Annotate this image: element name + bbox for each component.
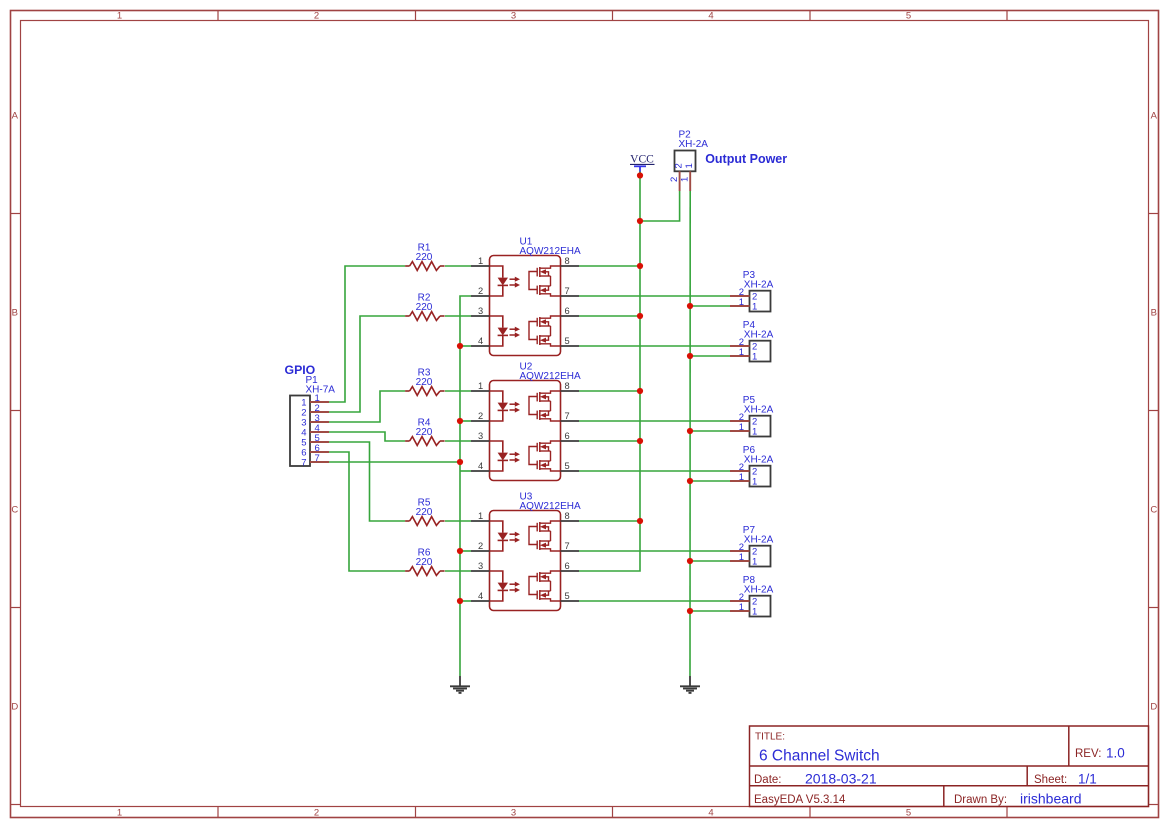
svg-text:1: 1 xyxy=(478,256,483,266)
wire R3 to U2.1 xyxy=(445,390,471,392)
svg-text:5: 5 xyxy=(906,10,911,21)
svg-text:4: 4 xyxy=(478,591,483,601)
connector P6 XH-2A xyxy=(730,462,771,488)
wire U3.7 to P7.2 xyxy=(579,550,730,552)
svg-text:C: C xyxy=(11,505,18,516)
svg-text:3: 3 xyxy=(511,10,516,21)
svg-text:1: 1 xyxy=(684,163,695,168)
svg-text:2: 2 xyxy=(314,807,319,818)
svg-text:1.0: 1.0 xyxy=(1106,746,1125,761)
wire VCC bus down to U3.6 xyxy=(579,172,640,572)
svg-text:XH-2A: XH-2A xyxy=(744,584,774,595)
wire R1 to U1.1 xyxy=(445,265,471,267)
svg-text:3: 3 xyxy=(511,807,516,818)
VCC power flag xyxy=(630,154,655,173)
svg-text:Date:: Date: xyxy=(754,774,782,786)
svg-text:4: 4 xyxy=(708,10,713,21)
wire P1.1 to R1 xyxy=(329,266,405,402)
wire R5 to U3.1 xyxy=(445,520,471,522)
svg-text:XH-2A: XH-2A xyxy=(744,534,774,545)
svg-text:2: 2 xyxy=(478,411,483,421)
svg-text:220: 220 xyxy=(416,302,433,313)
svg-text:1: 1 xyxy=(680,177,691,182)
svg-text:EasyEDA V5.3.14: EasyEDA V5.3.14 xyxy=(754,794,846,806)
svg-text:XH-7A: XH-7A xyxy=(306,385,336,396)
svg-text:1: 1 xyxy=(739,297,744,308)
svg-text:1/1: 1/1 xyxy=(1078,772,1097,787)
svg-text:220: 220 xyxy=(416,427,433,438)
svg-text:220: 220 xyxy=(416,252,433,263)
svg-text:D: D xyxy=(11,702,18,713)
svg-text:B: B xyxy=(12,308,18,319)
wire R4 to U2.3 xyxy=(445,440,471,442)
wire U2.7 to P5.2 xyxy=(579,420,730,422)
resistor R4 220 xyxy=(405,437,445,446)
wire bus to P4.1 xyxy=(690,355,730,357)
wire U1.6 to VCC bus xyxy=(579,315,640,317)
svg-text:1: 1 xyxy=(478,511,483,521)
svg-text:5: 5 xyxy=(565,461,570,471)
svg-text:7: 7 xyxy=(315,453,320,464)
title block xyxy=(750,726,1149,807)
svg-text:7: 7 xyxy=(565,541,570,551)
wire U3.5 to P8.2 xyxy=(579,600,730,602)
connector P8 XH-2A xyxy=(730,592,771,618)
wire P1.5 to R5 xyxy=(329,442,405,521)
svg-text:A: A xyxy=(12,111,19,122)
svg-text:2: 2 xyxy=(314,10,319,21)
svg-text:2018-03-21: 2018-03-21 xyxy=(805,771,877,787)
wire U1.7 to P3.2 xyxy=(579,295,730,297)
svg-text:REV:: REV: xyxy=(1075,748,1101,760)
wire P1.6 to R6 xyxy=(329,452,405,571)
svg-text:3: 3 xyxy=(478,306,483,316)
svg-text:A: A xyxy=(1151,111,1158,122)
svg-text:Output Power: Output Power xyxy=(705,152,787,166)
svg-text:VCC: VCC xyxy=(630,154,654,166)
svg-text:5: 5 xyxy=(565,591,570,601)
wire U1.5 to P4.2 xyxy=(579,345,730,347)
wire P1.4 to R4 xyxy=(329,432,405,441)
wire bus to U3.4 xyxy=(460,600,471,602)
wire bus to U1.4 xyxy=(460,345,471,347)
wire bus to P3.1 xyxy=(690,305,730,307)
wire P1.2 to R2 xyxy=(329,316,405,412)
svg-text:3: 3 xyxy=(478,561,483,571)
svg-text:1: 1 xyxy=(117,10,122,21)
resistor R2 220 xyxy=(405,312,445,321)
svg-text:7: 7 xyxy=(565,286,570,296)
resistor R5 220 xyxy=(405,517,445,526)
wire U2.6 to VCC bus xyxy=(579,440,640,442)
svg-text:220: 220 xyxy=(416,377,433,388)
svg-text:1: 1 xyxy=(478,381,483,391)
svg-text:220: 220 xyxy=(416,507,433,518)
svg-text:6: 6 xyxy=(565,561,570,571)
svg-text:AQW212EHA: AQW212EHA xyxy=(520,371,581,382)
svg-text:4: 4 xyxy=(478,336,483,346)
svg-text:4: 4 xyxy=(478,461,483,471)
svg-text:4: 4 xyxy=(708,807,713,818)
wire U1.8 to VCC bus xyxy=(579,265,640,267)
svg-text:XH-2A: XH-2A xyxy=(744,279,774,290)
svg-text:8: 8 xyxy=(565,256,570,266)
svg-text:1: 1 xyxy=(739,552,744,563)
wire P1.3 to R3 xyxy=(329,391,405,422)
svg-text:XH-2A: XH-2A xyxy=(679,139,709,150)
svg-text:2: 2 xyxy=(669,177,680,182)
wire U2.5 to P6.2 xyxy=(579,470,730,472)
optocoupler U1 AQW212EHA xyxy=(471,256,579,356)
svg-text:7: 7 xyxy=(301,458,306,469)
wire P2.2 to VCC bus xyxy=(640,191,680,221)
svg-text:irishbeard: irishbeard xyxy=(1020,791,1081,807)
svg-text:B: B xyxy=(1151,308,1157,319)
svg-text:1: 1 xyxy=(752,427,757,438)
svg-text:1: 1 xyxy=(752,302,757,313)
wire P1.7 to cathode bus xyxy=(329,461,460,463)
svg-text:1: 1 xyxy=(739,472,744,483)
svg-text:XH-2A: XH-2A xyxy=(744,404,774,415)
svg-text:8: 8 xyxy=(565,511,570,521)
resistor R6 220 xyxy=(405,567,445,576)
connector P5 XH-2A xyxy=(730,412,771,438)
wire R2 to U1.3 xyxy=(445,315,471,317)
wire bus to P6.1 xyxy=(690,480,730,482)
connector P1 XH-7A GPIO header xyxy=(290,393,329,468)
svg-text:6: 6 xyxy=(565,306,570,316)
wire bus to U3.2 xyxy=(460,550,471,552)
svg-text:Sheet:: Sheet: xyxy=(1034,774,1067,786)
wire output power bus P2.1 to GND xyxy=(689,191,691,676)
svg-text:2: 2 xyxy=(478,541,483,551)
svg-text:220: 220 xyxy=(416,557,433,568)
title text xyxy=(754,732,1125,807)
connector P4 XH-2A xyxy=(730,337,771,363)
wire U2.8 to VCC bus xyxy=(579,390,640,392)
connector P2 XH-2A output power xyxy=(669,151,696,192)
svg-text:1: 1 xyxy=(739,347,744,358)
svg-text:XH-2A: XH-2A xyxy=(744,454,774,465)
svg-text:C: C xyxy=(1150,505,1157,516)
svg-text:5: 5 xyxy=(906,807,911,818)
wire bus to P8.1 xyxy=(690,610,730,612)
junction dots xyxy=(457,172,693,614)
svg-text:Drawn By:: Drawn By: xyxy=(954,794,1007,806)
svg-text:TITLE:: TITLE: xyxy=(755,732,785,743)
svg-text:1: 1 xyxy=(117,807,122,818)
svg-text:3: 3 xyxy=(478,431,483,441)
svg-text:D: D xyxy=(1150,702,1157,713)
wire R6 to U3.3 xyxy=(445,570,471,572)
wire bus to P5.1 xyxy=(690,430,730,432)
resistor R1 220 xyxy=(405,262,445,271)
wire bus to P7.1 xyxy=(690,560,730,562)
optocoupler U2 AQW212EHA xyxy=(471,381,579,481)
wire bus to U2.4 xyxy=(460,470,471,472)
svg-text:2: 2 xyxy=(674,163,685,168)
svg-text:2: 2 xyxy=(478,286,483,296)
svg-text:XH-2A: XH-2A xyxy=(744,329,774,340)
svg-text:1: 1 xyxy=(739,422,744,433)
wire bus to U2.2 xyxy=(460,420,471,422)
svg-text:1: 1 xyxy=(752,352,757,363)
svg-text:AQW212EHA: AQW212EHA xyxy=(520,246,581,257)
svg-text:1: 1 xyxy=(739,602,744,613)
svg-text:6 Channel Switch: 6 Channel Switch xyxy=(759,748,880,765)
svg-text:6: 6 xyxy=(565,431,570,441)
connector P7 XH-2A xyxy=(730,542,771,568)
optocoupler U3 AQW212EHA xyxy=(471,511,579,611)
ground symbol GND2 xyxy=(680,676,700,693)
svg-text:5: 5 xyxy=(565,336,570,346)
svg-text:AQW212EHA: AQW212EHA xyxy=(520,501,581,512)
wire LED cathode bus xyxy=(460,296,471,676)
svg-text:1: 1 xyxy=(752,557,757,568)
ground symbol GND1 xyxy=(450,676,470,693)
connector P3 XH-2A xyxy=(730,287,771,313)
svg-text:7: 7 xyxy=(565,411,570,421)
svg-text:1: 1 xyxy=(752,477,757,488)
resistor R3 220 xyxy=(405,387,445,396)
wire U3.8 to VCC bus xyxy=(579,520,640,522)
svg-text:8: 8 xyxy=(565,381,570,391)
svg-text:1: 1 xyxy=(752,607,757,618)
